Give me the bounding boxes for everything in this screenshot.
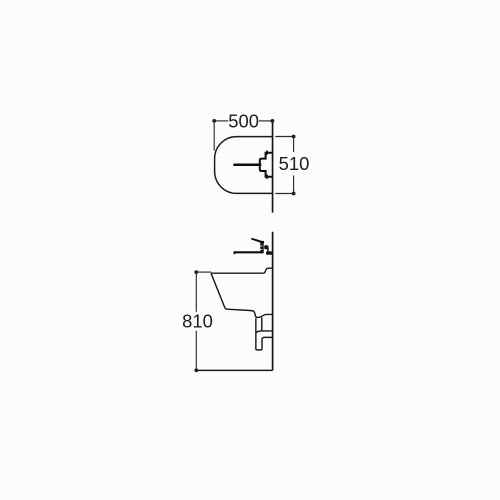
faucet side lever — [252, 239, 261, 242]
svg-text:510: 510 — [279, 153, 310, 174]
basin side rim — [211, 268, 273, 273]
wall line (side view) — [272, 232, 274, 371]
faucet side spout — [234, 251, 263, 253]
floor line — [196, 369, 272, 371]
dimension 510 bottom extension line — [275, 193, 293, 195]
faucet side body slit 2 — [260, 248, 262, 251]
basin plan outline — [215, 137, 273, 194]
faucet spout (plan) — [234, 164, 260, 167]
faucet side wall foot — [266, 251, 273, 254]
faucet body tick bottom (plan) — [266, 175, 268, 179]
dimension 510 vertical line — [293, 137, 295, 153]
trap outlet top edge — [256, 331, 273, 333]
trap tailpiece right edge — [261, 318, 263, 331]
faucet side wall shank — [264, 245, 268, 249]
dimension 510 top extension line — [275, 136, 293, 138]
trap tailpiece left edge + bottom cap + outlet bottom — [256, 318, 273, 350]
dimension 810 top extension line — [196, 271, 211, 273]
dimension 500 line — [214, 120, 228, 122]
faucet side body slit 1 — [260, 245, 262, 248]
svg-text:810: 810 — [182, 311, 213, 332]
faucet side spout tip — [234, 251, 236, 254]
dimension 810 vertical line — [195, 272, 197, 312]
faucet side body — [260, 241, 263, 253]
faucet side body top bar — [260, 241, 264, 243]
wall line (plan view) — [272, 121, 274, 213]
faucet side shank stem — [267, 249, 269, 253]
dimension 500 extension line — [213, 123, 215, 151]
svg-text:500: 500 — [228, 110, 259, 131]
faucet body tick top (plan) — [266, 151, 268, 155]
basin side front and bottom — [211, 273, 273, 317]
faucet body (plan) — [260, 153, 273, 177]
